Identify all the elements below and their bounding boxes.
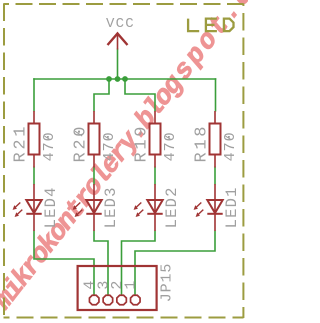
svg-text:LED2: LED2 [163, 186, 181, 228]
pin 2 circle [117, 295, 127, 305]
LED LED1 [196, 184, 222, 231]
connector JP15 [78, 266, 157, 310]
LED LED3 [75, 184, 101, 231]
LED LED2 [136, 184, 162, 231]
LED LED4 [15, 184, 41, 231]
pin 4 circle [89, 295, 99, 305]
svg-text:470: 470 [101, 131, 118, 161]
pin 3 circle [103, 295, 113, 305]
light emission arrowheads of LED3 [73, 205, 79, 217]
frame border left [3, 4, 5, 319]
wire R18 to LED1 [214, 167, 216, 185]
svg-text:470: 470 [162, 131, 179, 161]
svg-text:R21: R21 [12, 124, 31, 163]
wire bus VCC [33, 49, 216, 295]
svg-text:R20: R20 [72, 124, 91, 163]
resistor R21 [29, 111, 40, 168]
power symbol VCC [108, 34, 128, 50]
wire jog to R20 [94, 79, 109, 112]
light emission arrowheads of LED2 [134, 205, 140, 217]
wire bus horizontal [33, 78, 216, 80]
title LED [188, 19, 233, 32]
resistor R19 [150, 111, 161, 168]
wire drop to R21 [33, 78, 35, 111]
light emission arrowheads of LED4 [13, 205, 19, 217]
wire LED2 to pin2 [122, 231, 156, 295]
svg-text:LED4: LED4 [42, 186, 60, 228]
resistor R20 [89, 111, 100, 168]
junction dot A [106, 76, 112, 82]
wire R21 to LED4 [33, 167, 35, 185]
svg-text:470: 470 [222, 131, 239, 161]
svg-text:LED1: LED1 [223, 186, 241, 228]
svg-text:LED3: LED3 [102, 186, 120, 228]
svg-text:470: 470 [41, 131, 58, 161]
svg-text:R19: R19 [133, 124, 152, 163]
wire LED1 to pin1 [135, 231, 215, 295]
frame border right [242, 4, 244, 319]
junction dots [106, 76, 128, 82]
wire LED4 to pin4 [34, 231, 94, 295]
light emission arrowheads of LED1 [194, 205, 200, 217]
wire jog to R19 [125, 79, 155, 112]
frame border top [4, 3, 244, 5]
wire R19 to LED2 [154, 167, 156, 185]
junction dot C [122, 76, 128, 82]
wire R20 to LED3 [93, 167, 95, 185]
svg-text:JP15: JP15 [159, 263, 176, 303]
junction dot B [115, 76, 121, 82]
svg-text:1: 1 [123, 281, 140, 290]
wire LED3 to pin3 [94, 231, 108, 295]
wire VCC stem lower [117, 49, 119, 80]
pin 1 circle [131, 295, 141, 305]
wire drop to R18 [215, 78, 217, 111]
svg-text:VCC: VCC [106, 16, 135, 32]
svg-text:R18: R18 [193, 124, 212, 163]
resistor R18 [210, 111, 221, 168]
frame border bottom [4, 317, 244, 319]
